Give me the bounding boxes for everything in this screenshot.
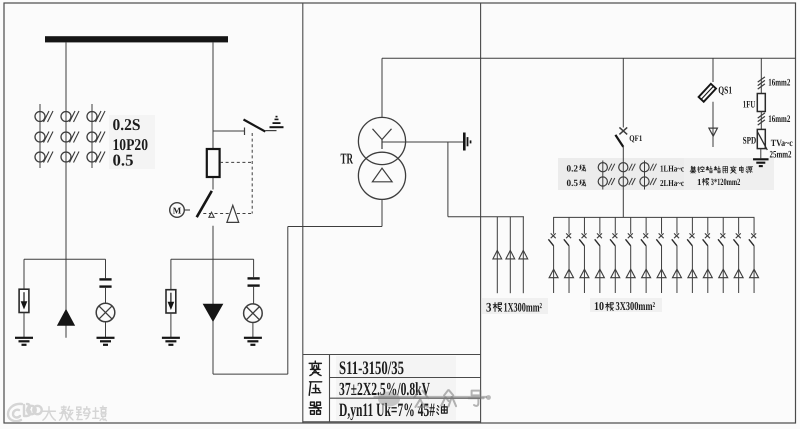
svg-text:0.2S: 0.2S (113, 115, 141, 134)
svg-text:SPD: SPD (743, 136, 757, 147)
svg-text:3*120mm2: 3*120mm2 (711, 178, 741, 188)
svg-text:M: M (173, 205, 182, 215)
svg-text:QF1: QF1 (629, 133, 642, 143)
svg-text:1FU: 1FU (743, 100, 756, 111)
svg-text:16mm2: 16mm2 (768, 78, 790, 89)
svg-text:3: 3 (486, 300, 492, 315)
svg-text:1X300mm²: 1X300mm² (504, 300, 543, 315)
svg-text:TVa~c: TVa~c (771, 139, 793, 149)
svg-text:0.2: 0.2 (567, 164, 579, 174)
svg-text:10: 10 (594, 299, 604, 313)
svg-text:0.5: 0.5 (113, 151, 134, 170)
svg-text:3X300mm²: 3X300mm² (616, 299, 656, 313)
svg-text:0.5: 0.5 (567, 179, 579, 189)
svg-text:TR: TR (341, 152, 354, 168)
svg-text:1: 1 (697, 177, 702, 187)
svg-text:2LHa~c: 2LHa~c (660, 178, 684, 188)
svg-text:16mm2: 16mm2 (768, 114, 790, 125)
svg-text:S11-3150/35: S11-3150/35 (339, 358, 404, 379)
svg-text:25mm2: 25mm2 (770, 149, 792, 160)
svg-text:1LHa~c: 1LHa~c (660, 163, 684, 173)
svg-text:QS1: QS1 (718, 86, 732, 97)
